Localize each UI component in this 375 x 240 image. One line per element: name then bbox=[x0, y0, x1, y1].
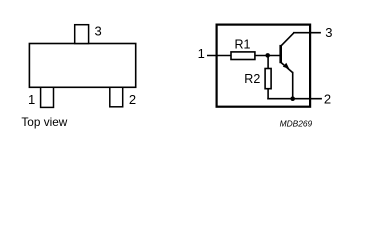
svg-text:MDB269: MDB269 bbox=[280, 119, 313, 129]
node A junction dot (base node) bbox=[265, 53, 270, 58]
transistor Q1 collector lead bbox=[281, 33, 294, 47]
schematic outline box bbox=[217, 25, 311, 107]
pin 1 tab bbox=[41, 87, 54, 107]
svg-text:R1: R1 bbox=[235, 37, 251, 51]
wire: collector to pin 3 bbox=[293, 32, 321, 34]
package body (SOT-23 top view) bbox=[29, 44, 135, 88]
svg-text:1: 1 bbox=[28, 92, 35, 107]
wire: node A down to R2 bbox=[267, 56, 269, 70]
svg-text:3: 3 bbox=[94, 24, 101, 39]
wire: R2 down to emitter rail bbox=[267, 89, 269, 100]
pin 3 tab bbox=[75, 25, 89, 44]
svg-text:2: 2 bbox=[129, 92, 136, 107]
transistor Q1 base bar bbox=[279, 45, 282, 63]
svg-text:R2: R2 bbox=[244, 72, 260, 86]
resistor R2 bbox=[265, 69, 271, 89]
junction dot at emitter node bbox=[290, 96, 295, 101]
svg-text:2: 2 bbox=[324, 92, 331, 107]
svg-text:Top view: Top view bbox=[21, 115, 67, 129]
resistor R1 bbox=[231, 52, 255, 60]
svg-text:1: 1 bbox=[198, 46, 205, 61]
svg-text:3: 3 bbox=[325, 25, 332, 40]
transistor Q1 emitter lead bbox=[281, 62, 293, 73]
wire: emitter down to emitter node bbox=[292, 72, 294, 99]
wire: pin 1 lead to base (through R1) bbox=[207, 55, 280, 57]
pin 2 tab bbox=[110, 87, 123, 107]
emitter arrowhead bbox=[283, 63, 290, 69]
wire: emitter rail to pin 2 bbox=[267, 98, 322, 100]
